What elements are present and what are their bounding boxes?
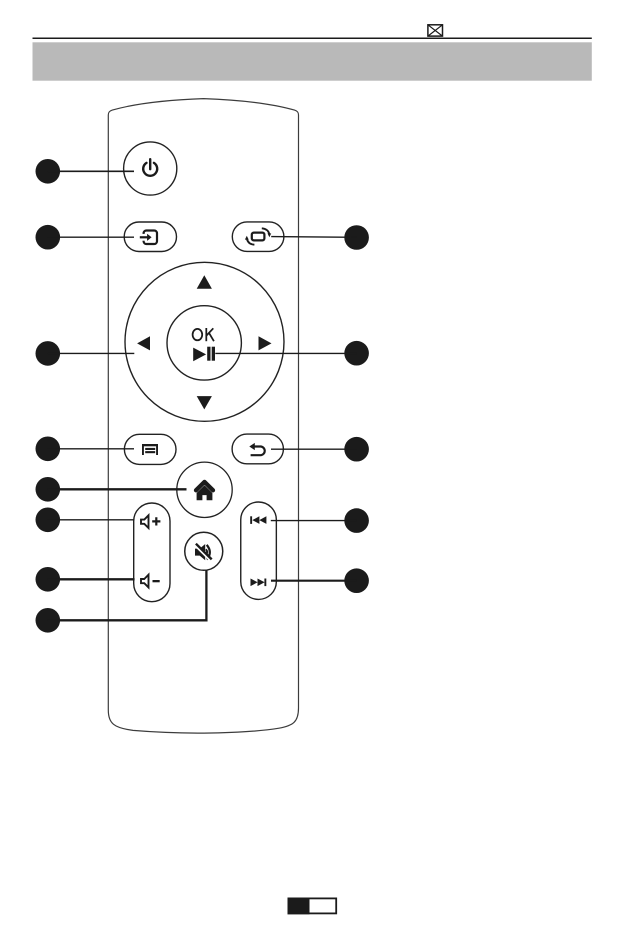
wire dotR1 to rotate: [271, 236, 356, 239]
skip rocker: [241, 502, 277, 599]
d-pad arrow up: [197, 275, 212, 288]
d-pad arrow down: [197, 396, 212, 409]
wire dotR2 to ok: [215, 352, 356, 354]
remote body outline: [108, 99, 298, 734]
wire dot4 to menu: [48, 448, 134, 450]
wire dot2 to source: [48, 236, 134, 238]
callout dot 1 (power): [36, 159, 135, 184]
mute icon: [195, 544, 212, 561]
callout dot 8 (mute): [36, 570, 207, 632]
callout dot R4 (previous): [271, 508, 369, 533]
source button: [124, 222, 176, 252]
menu button: [124, 434, 176, 464]
callout dot R3 (back): [271, 437, 369, 462]
power icon: [143, 159, 157, 176]
callout dot R5 (next): [271, 568, 369, 593]
page indicator: [288, 898, 337, 915]
header rule: [33, 37, 592, 39]
next track icon: [251, 579, 267, 587]
source icon: [140, 231, 157, 245]
callout dot 7 (volume down): [36, 567, 135, 592]
power button: [124, 142, 177, 195]
wire dot5 to home: [48, 488, 187, 490]
rotate button: [232, 222, 284, 252]
callout dot R2 (play/pause): [215, 341, 369, 366]
wire dot8 elbow to mute: [48, 570, 207, 620]
d-pad ring: [125, 262, 284, 421]
callout dot 5 (home): [36, 477, 187, 502]
back button: [232, 434, 283, 464]
ok button: [167, 306, 241, 380]
callout dot 3 (left arrow): [36, 341, 135, 366]
mute button: [185, 532, 223, 570]
rotate icon: [245, 228, 271, 244]
wire dot3 to d-pad: [48, 352, 135, 354]
back icon: [249, 443, 264, 455]
wire dot6 to volume rocker: [48, 519, 134, 521]
wire dot7 to volume rocker: [48, 578, 135, 580]
home button: [177, 462, 232, 517]
envelope icon: [428, 25, 443, 36]
header bar: [33, 42, 592, 80]
volume up icon: [141, 515, 160, 528]
volume rocker: [134, 503, 170, 602]
wire dot1 to power: [48, 170, 134, 172]
callout dot R1 (rotate): [271, 225, 369, 250]
d-pad arrow left: [137, 336, 150, 350]
volume down icon: [141, 575, 160, 588]
menu icon: [142, 444, 158, 455]
OK label: [193, 328, 214, 341]
wire dotR4 to skip rocker: [271, 520, 357, 522]
d-pad arrow right: [259, 336, 272, 350]
home icon: [196, 482, 213, 500]
callout dot 6 (volume up): [36, 508, 135, 533]
wire dotR5 to skip rocker: [271, 580, 357, 582]
wire dotR3 to back: [271, 448, 357, 450]
callout dot 2 (source): [36, 225, 135, 250]
previous track icon: [250, 516, 266, 524]
callout dot 4 (menu): [36, 437, 135, 462]
play/pause icon: [193, 347, 215, 362]
